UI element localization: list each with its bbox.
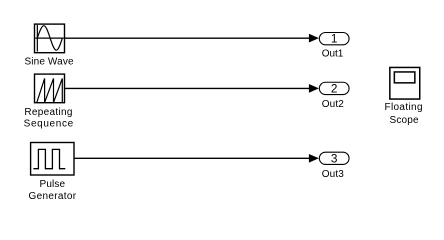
svg-text:Sine Wave: Sine Wave [25,57,74,68]
svg-text:Out2: Out2 [322,99,344,110]
svg-text:Out3: Out3 [322,169,344,180]
svg-text:1: 1 [331,32,338,46]
svg-text:2: 2 [331,82,338,96]
svg-text:Out1: Out1 [322,48,344,59]
svg-text:Repeating: Repeating [24,107,72,118]
svg-text:Pulse: Pulse [40,179,66,190]
svg-text:Scope: Scope [390,115,419,126]
svg-text:Generator: Generator [29,191,77,202]
svg-text:3: 3 [331,151,338,165]
svg-text:Floating: Floating [385,102,423,113]
svg-text:Sequence: Sequence [24,119,74,130]
